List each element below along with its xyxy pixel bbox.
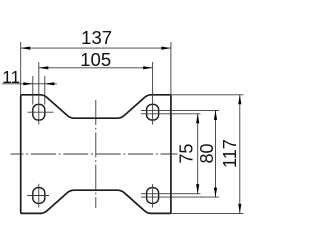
dimension 80 line [215, 110, 217, 197]
svg-text:137: 137 [81, 27, 112, 48]
dimension 117 extension lines [171, 95, 244, 214]
svg-text:11: 11 [2, 67, 20, 87]
arrow 80 top [214, 110, 217, 120]
crosshair bottom-right slot + 75/80 extension lines [141, 184, 219, 208]
dimension 11 extension lines [33, 76, 45, 105]
dimension 137 extension lines [21, 42, 171, 96]
arrow 11 left [23, 82, 33, 85]
dimension 137 line [21, 47, 171, 49]
crosshair bottom-left slot [27, 184, 49, 208]
plate outline [21, 95, 171, 214]
slot hole bottom-right [147, 188, 159, 204]
dimension 11 line [2, 83, 57, 85]
vertical centerline [95, 100, 97, 208]
arrow 105 left [39, 66, 49, 69]
dimension 105 line [39, 67, 153, 69]
arrow 75 bottom [196, 184, 199, 194]
dimension 117 line [239, 95, 241, 214]
svg-text:117: 117 [220, 139, 240, 168]
horizontal centerline [11, 153, 178, 155]
svg-text:105: 105 [80, 49, 111, 70]
arrow 105 right [143, 66, 153, 69]
arrow 137 right [161, 47, 171, 50]
arrow 117 top [238, 95, 241, 105]
slot hole bottom-left [33, 188, 45, 204]
crosshair top-left slot [28, 62, 54, 125]
arrow 11 right [45, 82, 55, 85]
slot hole top-right [147, 104, 159, 120]
arrow 80 bottom [214, 188, 217, 198]
arrow 117 bottom [238, 204, 241, 214]
svg-text:80: 80 [197, 143, 217, 163]
svg-text:75: 75 [176, 144, 196, 164]
arrow 75 top [196, 114, 199, 124]
crosshair top-right slot + 75/80 extension lines [141, 62, 219, 125]
dimension 75 line [197, 114, 199, 194]
arrow 137 left [21, 47, 31, 50]
slot hole top-left [33, 104, 45, 120]
